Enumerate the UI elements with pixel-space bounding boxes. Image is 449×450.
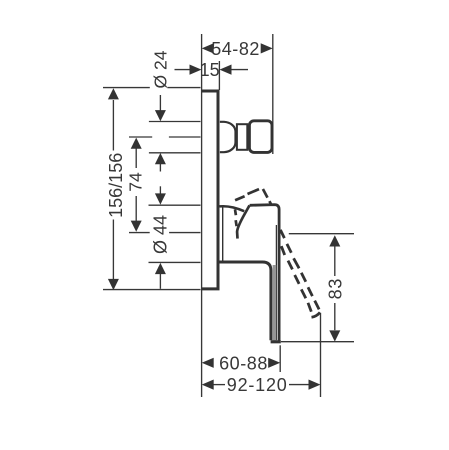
- svg-text:74: 74: [125, 172, 145, 192]
- svg-text:156/156: 156/156: [106, 153, 126, 218]
- svg-text:54-82: 54-82: [211, 39, 260, 59]
- svg-text:15: 15: [200, 60, 220, 80]
- svg-text:83: 83: [325, 278, 345, 300]
- svg-text:60-88: 60-88: [219, 353, 268, 373]
- svg-text:92-120: 92-120: [227, 375, 288, 395]
- svg-text:Ø 24: Ø 24: [151, 50, 171, 88]
- svg-text:Ø 44: Ø 44: [150, 215, 170, 254]
